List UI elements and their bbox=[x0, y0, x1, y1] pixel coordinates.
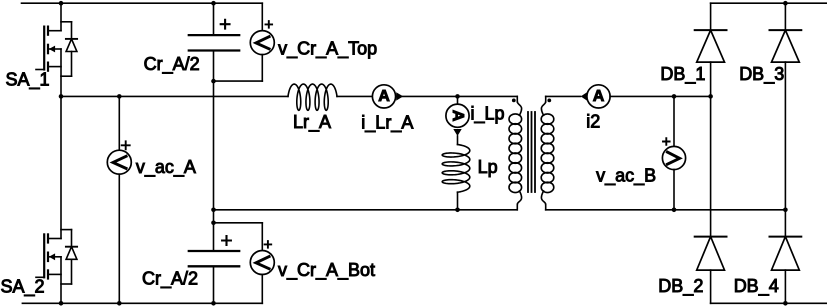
plus sign of v_ac_A bbox=[122, 141, 130, 149]
node Cr mid / v_Cr_A_Bot tap bbox=[211, 221, 216, 226]
wire half-bridge midpoint rail bbox=[61, 95, 288, 97]
wire v_ac_A upper lead bbox=[118, 96, 120, 150]
svg-text:DB_2: DB_2 bbox=[658, 276, 703, 297]
plus sign of bottom Cr_A/2 bbox=[222, 236, 231, 245]
plus sign of top Cr_A/2 bbox=[221, 20, 230, 29]
svg-text:Cr_A/2: Cr_A/2 bbox=[142, 268, 198, 289]
wire i_Lp upper lead bbox=[457, 96, 459, 104]
wire v_ac_B lower lead bbox=[673, 170, 675, 210]
label DB_3 bbox=[739, 64, 784, 85]
wire v_Cr_A_Top lower lead bbox=[214, 55, 263, 82]
wire Lr_A to i_Lr_A bbox=[337, 95, 372, 97]
label Lp bbox=[478, 157, 498, 177]
svg-text:SA_1: SA_1 bbox=[6, 70, 50, 91]
inductor Lr_A bbox=[288, 84, 337, 110]
svg-text:DB_3: DB_3 bbox=[739, 64, 784, 85]
node bridge midpoint / v_ac_A junction bbox=[117, 94, 122, 99]
wire v_Cr_A_Top upper lead bbox=[261, 3, 263, 30]
svg-text:A: A bbox=[378, 88, 390, 105]
ammeter i_Lr_A bbox=[372, 85, 395, 108]
label i_Lp bbox=[471, 104, 505, 125]
svg-text:A: A bbox=[593, 88, 605, 105]
arrow of i_Lp bbox=[453, 129, 461, 136]
voltmeter v_Cr_A_Top bbox=[250, 31, 274, 55]
svg-text:i_Lp: i_Lp bbox=[471, 104, 505, 125]
wire Lp lower lead bbox=[457, 192, 459, 210]
arrow of i2 bbox=[581, 92, 587, 100]
svg-text:Lp: Lp bbox=[478, 157, 498, 177]
label i2 bbox=[586, 112, 600, 132]
node bridge midpoint / SA_1 source junction bbox=[59, 94, 64, 99]
arrow of i_Lr_A bbox=[396, 92, 403, 100]
label v_ac_B bbox=[596, 166, 656, 187]
node Lp / return junction bbox=[455, 208, 460, 213]
node bridge right leg / AC junction bbox=[783, 208, 788, 213]
voltmeter v_ac_B bbox=[662, 146, 685, 169]
node bottom rail / SA_2 source junction bbox=[59, 301, 64, 306]
diode DB_2 bbox=[695, 96, 727, 303]
node bottom rail / Cr_A string junction bbox=[211, 301, 216, 306]
node bridge left leg / AC junction bbox=[708, 94, 713, 99]
inductor Lp bbox=[442, 145, 470, 193]
label SA_2 bbox=[1, 276, 45, 297]
node Lp branch junction bbox=[455, 94, 460, 99]
plus sign of v_ac_B bbox=[663, 138, 670, 145]
wire secondary return bbox=[546, 209, 786, 211]
wire Cr midpoint vertical bbox=[213, 51, 215, 252]
label v_ac_A bbox=[136, 157, 196, 178]
plus sign of v_Cr_A_Bot bbox=[265, 241, 272, 248]
svg-text:v_ac_A: v_ac_A bbox=[136, 157, 196, 178]
node v_ac_B top junction bbox=[672, 94, 677, 99]
diode DB_3 bbox=[770, 3, 802, 210]
wire bottom rail (input -) bbox=[22, 302, 262, 304]
svg-text:i2: i2 bbox=[586, 112, 600, 132]
transformer secondary winding bbox=[541, 96, 554, 209]
node top rail / Cr_A string junction bbox=[211, 1, 216, 6]
wire v_ac_A lower lead bbox=[118, 174, 120, 303]
svg-text:v_ac_B: v_ac_B bbox=[596, 166, 656, 187]
node input+ / SA_1 drain junction bbox=[59, 1, 64, 6]
label DB_4 bbox=[734, 276, 779, 297]
wire top rail (input +) bbox=[22, 2, 263, 4]
svg-text:Cr_A/2: Cr_A/2 bbox=[144, 54, 200, 75]
label Cr_A/2 bottom bbox=[142, 268, 198, 289]
wire bridge bottom rail (output -) bbox=[711, 302, 827, 304]
wire i_Lp to Lp bbox=[457, 136, 459, 145]
node Cr mid / transformer return tap bbox=[211, 208, 216, 213]
label DB_2 bbox=[658, 276, 703, 297]
svg-text:v_Cr_A_Bot: v_Cr_A_Bot bbox=[278, 260, 375, 281]
transformer secondary polarity dot bbox=[547, 99, 551, 103]
transformer primary polarity dot bbox=[512, 99, 516, 103]
node bridge top rail / DB_3 junction bbox=[783, 1, 788, 6]
ammeter i_Lp bbox=[446, 104, 469, 127]
transformer core bbox=[528, 112, 535, 192]
label v_Cr_A_Top bbox=[278, 38, 377, 59]
node bottom rail / v_ac_A junction bbox=[117, 301, 122, 306]
wire i2 to bridge bbox=[610, 95, 711, 97]
label i_Lr_A bbox=[361, 112, 413, 133]
wire primary return bbox=[214, 209, 518, 211]
label SA_1 bbox=[6, 70, 50, 91]
label Lr_A bbox=[293, 112, 331, 133]
svg-text:Lr_A: Lr_A bbox=[293, 112, 331, 133]
svg-text:DB_4: DB_4 bbox=[734, 276, 779, 297]
label Cr_A/2 top bbox=[144, 54, 200, 75]
wire v_Cr_A_Bot upper lead bbox=[214, 223, 263, 251]
voltmeter v_ac_A bbox=[107, 150, 131, 174]
capacitor Cr_A/2 top bbox=[189, 35, 239, 50]
label DB_1 bbox=[660, 64, 705, 85]
node Cr mid / v_Cr_A_Top tap bbox=[211, 79, 216, 84]
transistor SA_1 (MOSFET with body diode) bbox=[36, 3, 77, 96]
svg-text:SA_2: SA_2 bbox=[1, 276, 45, 297]
wire v_ac_B upper lead bbox=[673, 96, 675, 146]
plus sign of v_Cr_A_Top bbox=[266, 21, 273, 28]
svg-text:v_Cr_A_Top: v_Cr_A_Top bbox=[278, 38, 377, 59]
wire v_Cr_A_Bot lower lead bbox=[261, 275, 263, 304]
node bridge bottom rail / DB_4 junction bbox=[783, 301, 788, 306]
node v_ac_B bottom junction bbox=[672, 208, 677, 213]
svg-text:i_Lr_A: i_Lr_A bbox=[361, 112, 413, 133]
wire Cr string upper lead bbox=[213, 3, 215, 35]
svg-text:DB_1: DB_1 bbox=[660, 64, 705, 85]
wire i_Lr_A to Lp node bbox=[396, 95, 517, 97]
svg-text:A: A bbox=[449, 110, 466, 122]
transformer primary winding bbox=[509, 96, 522, 209]
transistor SA_2 (MOSFET with body diode) bbox=[36, 96, 77, 303]
wire Cr bottom lead bbox=[213, 266, 215, 303]
diode DB_4 bbox=[770, 210, 802, 303]
wire secondary top to i2 arrow bbox=[546, 95, 581, 97]
voltmeter v_Cr_A_Bot bbox=[250, 251, 274, 275]
ammeter i2 bbox=[587, 85, 610, 108]
label v_Cr_A_Bot bbox=[278, 260, 375, 281]
capacitor Cr_A/2 bottom bbox=[189, 251, 239, 266]
wire bridge top rail (output +) bbox=[711, 2, 827, 4]
diode DB_1 bbox=[695, 3, 727, 96]
